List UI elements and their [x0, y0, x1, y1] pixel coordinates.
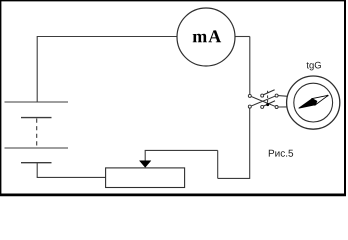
- wire switch to galvanometer upper: [278, 95, 288, 98]
- frame border top: [0, 0, 346, 2]
- wire vertical from switch bottom-left terminal down to step: [249, 108, 251, 179]
- rheostat R1 body: [106, 168, 185, 188]
- battery GB1 short plate 2: [21, 162, 52, 164]
- switch S1 terminal right-top: [275, 94, 278, 97]
- milliammeter PA1 circle: [177, 8, 235, 66]
- svg-text:tgG: tgG: [306, 60, 321, 71]
- switch S1 terminal left-bottom: [248, 105, 251, 108]
- switch S1 terminal mid-bottom: [261, 105, 264, 108]
- switch S1 dashed coupling link: [267, 91, 269, 105]
- wire switch to galvanometer lower: [278, 106, 287, 108]
- wire step vertical: [217, 150, 219, 178]
- wire right vertical down to switch top-left terminal: [249, 37, 251, 95]
- switch S1 terminal left-top: [248, 94, 251, 97]
- switch S1 blade bottom: [264, 101, 276, 106]
- galvanometer needle tip point: [327, 95, 329, 97]
- switch S1 terminal mid-top: [261, 94, 264, 97]
- wire step horizontal: [218, 177, 250, 179]
- galvanometer tgG outer circle: [287, 76, 340, 129]
- wire from battery to rheostat: [37, 176, 106, 178]
- switch S1 blade top: [264, 90, 275, 95]
- galvanometer needle white half: [312, 95, 328, 105]
- switch S1 coupling dot: [266, 103, 269, 106]
- switch S1 cross link A: [251, 97, 275, 107]
- rheostat R1 wiper arrow: [140, 161, 151, 168]
- frame border bottom: [0, 193, 346, 196]
- galvanometer tgG inner circle: [294, 83, 333, 122]
- battery GB1 dashed middle link: [36, 119, 38, 148]
- switch S1 terminal right-bottom: [275, 106, 278, 109]
- battery GB1 long plate 2: [5, 147, 69, 149]
- wire left vertical from corner down to battery: [36, 36, 38, 102]
- galvanometer needle black half: [299, 99, 317, 109]
- svg-text:Рис.5: Рис.5: [268, 149, 294, 160]
- frame border right: [344, 0, 346, 196]
- switch S1 cross link B: [251, 96, 275, 106]
- wire from battery bottom plate down: [36, 163, 38, 177]
- wire wiper vertical stem: [144, 150, 146, 161]
- battery GB1 short plate 1: [21, 117, 52, 119]
- wire wiper horizontal run: [145, 149, 218, 151]
- wire top horizontal from battery corner to milliammeter: [37, 36, 177, 38]
- frame border left: [0, 0, 2, 196]
- wire from milliammeter to switch corner: [235, 36, 250, 38]
- svg-text:mA: mA: [192, 26, 222, 46]
- battery GB1 long plate 1: [5, 101, 69, 103]
